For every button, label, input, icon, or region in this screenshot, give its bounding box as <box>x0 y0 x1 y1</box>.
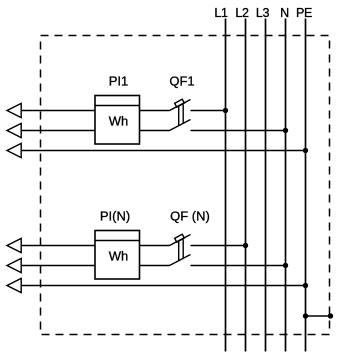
junction dot on PE <box>303 148 308 153</box>
svg-text:L3: L3 <box>256 6 270 20</box>
feeder arrow A1 <box>7 103 21 117</box>
wire group1 neutral: arrow to meter <box>21 130 95 132</box>
feeder arrow B3 <box>7 278 21 292</box>
dashed enclosure border <box>41 36 330 335</box>
wire group2 neutral: breaker to N <box>191 265 286 267</box>
wire group2 phase: breaker to L2 <box>191 245 246 247</box>
feeder arrow A3 <box>7 143 21 157</box>
svg-text:QF1: QF1 <box>169 74 194 89</box>
bus PE <box>305 19 307 352</box>
junction dot on PE lower <box>303 283 308 288</box>
wire group2 phase: meter to breaker <box>140 245 170 247</box>
junction dot PE tap left <box>303 313 308 318</box>
feeder arrow B1 <box>7 238 21 252</box>
wire group2 neutral: meter to breaker <box>140 265 170 267</box>
wire group1 phase: arrow to meter <box>21 110 95 112</box>
junction dot on N lower <box>283 263 288 268</box>
wire group2 PE: arrow to PE bus <box>21 285 305 287</box>
svg-text:PI(N): PI(N) <box>100 209 130 224</box>
wire group2 phase: arrow to meter <box>21 245 95 247</box>
meter PI(N) box <box>95 231 140 280</box>
svg-text:L2: L2 <box>235 6 249 20</box>
svg-text:PI1: PI1 <box>109 74 129 89</box>
meter PI1 box <box>95 96 140 145</box>
bus L1 <box>225 19 227 352</box>
bus L3 <box>265 19 267 352</box>
bus L2 <box>245 19 247 352</box>
breaker QF1 <box>170 99 191 130</box>
svg-text:PE: PE <box>296 6 312 20</box>
junction dot on N <box>283 128 288 133</box>
svg-text:QF (N): QF (N) <box>170 209 210 224</box>
svg-text:Wh: Wh <box>109 249 129 264</box>
svg-text:L1: L1 <box>214 6 228 20</box>
feeder arrow B2 <box>7 258 21 272</box>
wire group2 neutral: arrow to meter <box>21 265 95 267</box>
svg-text:Wh: Wh <box>109 114 129 129</box>
junction dot on L1 <box>223 108 228 113</box>
terminal dot PE tap right <box>328 313 333 318</box>
feeder arrow A2 <box>7 123 21 137</box>
junction dot on L2 <box>243 243 248 248</box>
svg-text:N: N <box>280 6 289 20</box>
wire group1 phase: meter to breaker <box>140 110 170 112</box>
wire group1 neutral: meter to breaker <box>140 130 170 132</box>
breaker QF(N) <box>170 234 191 265</box>
wire group1 phase: breaker to L1 <box>191 110 226 112</box>
wire group1 neutral: breaker to N <box>191 130 286 132</box>
wire group1 PE: arrow to PE bus <box>21 150 305 152</box>
wire PE tap to enclosure <box>306 315 331 317</box>
bus N <box>285 19 287 352</box>
